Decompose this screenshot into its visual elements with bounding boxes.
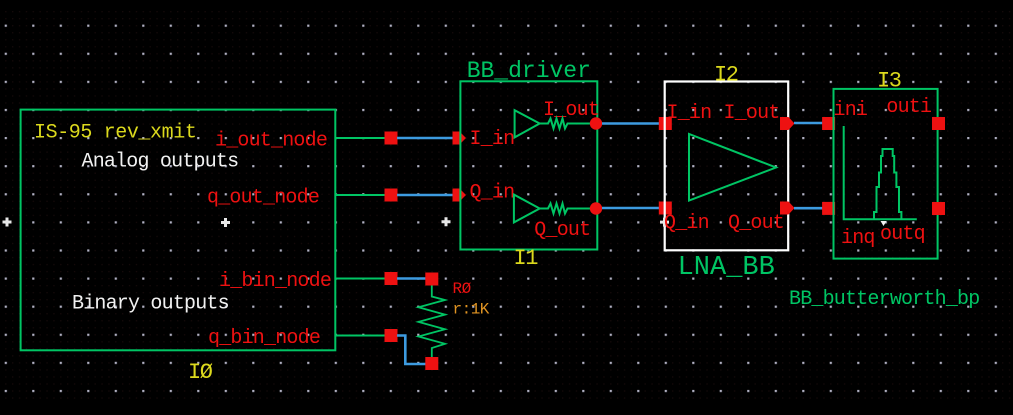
wire I1 Q_out to I2 Q_in: [602, 207, 660, 210]
svg-text:Q_out: Q_out: [534, 219, 590, 242]
pin arrow I2 Q_out: [780, 202, 795, 215]
svg-text:IS-95 rev_xmit: IS-95 rev_xmit: [34, 122, 196, 145]
instance I1 block outline (BB_driver): [460, 81, 597, 249]
instance I0 block outline (IS-95 rev_xmit): [21, 110, 336, 351]
wire q_bin_node (I0 to junction): [335, 335, 386, 337]
pin circle I_out (I1): [590, 117, 602, 129]
wire i_bin (junction to R0 top): [397, 277, 427, 280]
wire q_out (junction to I1 Q_in): [397, 194, 454, 197]
pin circle Q_out (I1): [590, 202, 602, 214]
svg-text:I3: I3: [877, 69, 901, 94]
svg-text:IØ: IØ: [188, 360, 213, 385]
wire q_bin (junction to R0 bottom, L-shaped): [397, 336, 427, 365]
origin marker I1: [442, 217, 451, 226]
svg-text:Q_in: Q_in: [470, 182, 515, 205]
resistor R0 terminal square bottom: [425, 357, 438, 370]
instance I3 block outline (BB_butterworth_bp): [834, 89, 938, 259]
resistor R0 terminal square top: [425, 273, 438, 286]
svg-text:LNA_BB: LNA_BB: [678, 253, 775, 283]
pin square I3 outq: [932, 202, 945, 215]
svg-text:BB_butterworth_bp: BB_butterworth_bp: [789, 288, 979, 311]
junction square i_out: [385, 132, 398, 145]
svg-text:outq: outq: [880, 223, 925, 246]
wire i_out (junction to I1 I_in): [397, 137, 454, 140]
origin marker (sheet): [3, 218, 12, 227]
pin square I2 I_in: [659, 117, 672, 130]
svg-text:q_out_node: q_out_node: [207, 187, 319, 210]
svg-text:i_bin_node: i_bin_node: [219, 270, 331, 293]
filter curve axes (I3): [844, 126, 917, 219]
buffer triangle I channel (I1): [515, 110, 540, 137]
svg-text:outi: outi: [886, 96, 931, 119]
svg-text:Binary outputs: Binary outputs: [72, 292, 229, 315]
svg-text:Analog outputs: Analog outputs: [82, 151, 239, 174]
svg-text:BB_driver: BB_driver: [467, 58, 591, 84]
wire I2 I_out to I3 ini: [794, 122, 823, 125]
buffer triangle Q channel (I1): [514, 195, 540, 223]
svg-text:Q_out: Q_out: [728, 212, 784, 235]
origin marker I0: [221, 218, 230, 227]
wire I1 I_out to I2 I_in: [602, 122, 660, 125]
junction square i_bin: [385, 272, 398, 285]
svg-text:I_in: I_in: [470, 128, 515, 151]
svg-text:inq: inq: [841, 227, 875, 250]
pin square I3 inq: [822, 202, 835, 215]
origin marker I2: [660, 218, 669, 227]
pin square I2 Q_in: [659, 202, 672, 215]
pin square I3 outi: [932, 117, 945, 130]
svg-text:ini: ini: [834, 99, 868, 122]
pin arrow I1 I_in: [453, 132, 467, 145]
pin square I3 ini: [822, 117, 835, 130]
svg-text:RØ: RØ: [453, 280, 472, 298]
amp triangle (I2): [689, 134, 776, 201]
resistor R0 body: [419, 286, 446, 358]
filter bandpass curve (I3): [874, 149, 901, 219]
svg-text:I2: I2: [714, 63, 738, 88]
junction square q_out: [385, 189, 398, 202]
svg-text:I1: I1: [514, 246, 539, 271]
resistor squiggle Q channel (I1): [540, 204, 597, 214]
svg-text:I_in: I_in: [667, 102, 712, 125]
junction square q_bin: [385, 329, 398, 342]
svg-text:r:1K: r:1K: [453, 301, 490, 319]
axis tick marker (I3): [881, 221, 887, 226]
svg-text:I_out: I_out: [724, 102, 780, 125]
wire i_out_node (I0 to junction): [335, 137, 386, 139]
wire i_bin_node (I0 to junction): [335, 278, 386, 280]
svg-text:Q_in: Q_in: [664, 212, 709, 235]
pin arrow I2 I_out: [780, 117, 795, 130]
pin arrow I1 Q_in: [453, 189, 467, 202]
wire q_out_node (I0 to junction): [335, 194, 386, 196]
svg-text:q_bin_node: q_bin_node: [208, 327, 320, 350]
resistor squiggle I channel (I1): [540, 119, 597, 129]
svg-text:i_out_node: i_out_node: [215, 129, 327, 152]
instance I2 block outline (LNA_BB): [665, 82, 789, 251]
wire I2 Q_out to I3 inq: [794, 207, 823, 210]
